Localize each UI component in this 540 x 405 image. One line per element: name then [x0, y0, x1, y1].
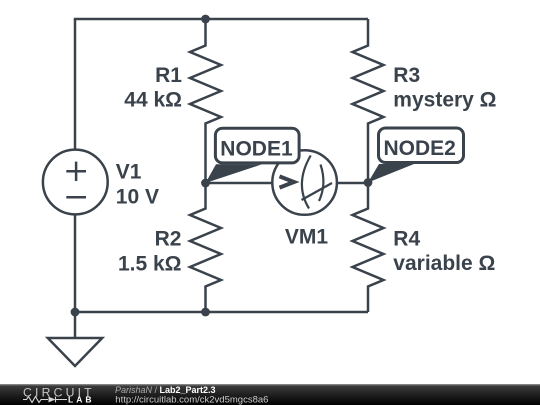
wire left vertical (V1 top lead) [74, 19, 77, 150]
resistor R4 [353, 183, 384, 312]
voltmeter arrow glyph [280, 176, 295, 187]
wire node1 to voltmeter [206, 182, 273, 185]
svg-text:VM1: VM1 [285, 226, 329, 249]
svg-text:http://circuitlab.com/ck2vd5mg: http://circuitlab.com/ck2vd5mgcs8a6 [115, 395, 268, 405]
node2 callout pointer [368, 164, 414, 183]
wire top horizontal [74, 18, 368, 21]
logo resistor squiggle and diode [23, 397, 67, 403]
svg-text:NODE1: NODE1 [220, 137, 293, 160]
svg-text:10 V: 10 V [116, 186, 159, 209]
voltmeter VM1 circle [272, 150, 337, 215]
wire V1 bottom lead [74, 214, 77, 312]
voltmeter needle [302, 183, 333, 200]
svg-text:1.5 kΩ: 1.5 kΩ [118, 252, 182, 275]
svg-text:R3: R3 [393, 64, 420, 87]
voltage source V1 circle [43, 150, 108, 215]
junction dot bottom R2 [201, 308, 210, 317]
svg-text:mystery Ω: mystery Ω [393, 89, 496, 112]
ground symbol [48, 312, 102, 366]
junction dot ground [71, 308, 80, 317]
node2 callout box [379, 128, 464, 163]
resistor R1 [190, 19, 221, 183]
wire voltmeter to node2 [337, 182, 368, 185]
svg-text:LAB: LAB [68, 394, 94, 404]
svg-text:variable Ω: variable Ω [393, 252, 495, 275]
wire bottom horizontal [75, 311, 368, 314]
svg-text:44 kΩ: 44 kΩ [124, 89, 182, 112]
junction dot top [201, 15, 210, 24]
voltmeter scale arc short [319, 165, 323, 202]
node1 callout pointer [206, 164, 263, 183]
junction dot node2 [364, 178, 373, 187]
resistor R2 [190, 183, 221, 312]
node1 callout box [215, 128, 299, 163]
svg-text:R1: R1 [155, 64, 182, 87]
voltmeter scale arc long [302, 156, 311, 209]
resistor R3 [353, 19, 384, 183]
V1 plus sign [66, 162, 86, 181]
svg-text:V1: V1 [116, 161, 142, 184]
svg-text:NODE2: NODE2 [384, 137, 456, 160]
svg-text:R4: R4 [393, 227, 420, 250]
V1 minus sign [66, 196, 86, 199]
svg-text:R2: R2 [155, 228, 182, 251]
junction dot node1 [201, 179, 210, 188]
